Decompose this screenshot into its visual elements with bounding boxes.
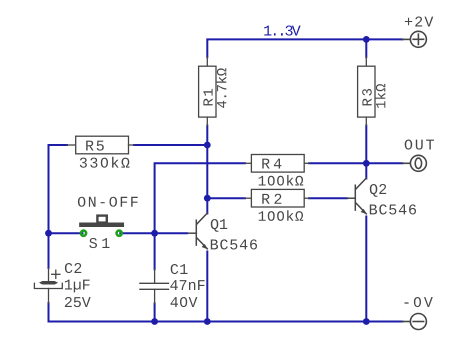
label C2 [65,263,81,273]
transistor Q1 [188,213,207,249]
label R5 [86,141,104,151]
wire R3 top stub [365,39,367,57]
label -0V [405,297,433,307]
wire switch left [49,232,84,234]
label R4 [262,159,281,169]
wire left rail top / R5 left [49,145,68,233]
wire R4 right / OUT line [309,162,403,164]
value 47nF [170,280,204,290]
resistor R1 [199,57,216,125]
transistor Q2 [347,178,366,214]
wire R3 bottom [365,126,367,164]
node label 1..3V [264,26,300,36]
label ON-OFF [78,197,138,207]
value 1µF [65,280,90,293]
resistor R4 [245,155,309,173]
S1 contact left [81,231,86,236]
wire left rail to C2 [48,233,50,268]
resistor R3 [358,57,375,125]
wire switch right to Q1 base [119,232,188,234]
switch S1 button bar [81,222,121,227]
wire C1 top lead [154,233,156,269]
value 40V [171,297,198,307]
label Q2 [370,184,386,197]
terminal OUT [403,155,427,171]
terminal +2V [403,31,427,47]
C2 plus sign [52,270,60,278]
label C1 [171,264,188,274]
value BC546 (Q1) [211,239,257,249]
wire Q2 emitter column [365,217,367,322]
label R2 [262,194,281,204]
value 4.7kΩ [216,68,226,108]
node left rail switch junction [45,230,52,237]
wire Q1 emitter column [206,252,208,322]
node C1 bottom junction [151,318,158,325]
label +2V [405,17,433,27]
wire R2 left [207,197,245,199]
resistor R5 [67,136,134,154]
transistor Q2 emitter arrow [361,209,367,215]
label OUT [405,140,434,150]
label Q1 [211,219,227,232]
value 330kΩ [80,157,130,168]
capacitor C1 [140,269,169,303]
value 100kΩ (R4) [259,175,304,186]
wire C1 bottom [154,303,156,321]
switch S1 actuator notch [97,216,106,223]
transistor Q1 emitter arrow [202,244,208,250]
wire C2 bottom to rail [49,303,403,322]
wire Q2 collector stub [365,163,367,178]
wire R4 left / C1 column top [155,163,245,233]
wire R5 right [134,144,207,146]
terminal -0V [403,314,427,330]
value 100kΩ (R2) [259,210,304,221]
node Q2 emitter bottom junction [363,318,370,325]
node Q1 collector junction [204,195,211,202]
wire R1 bottom to Q1 node [206,126,208,199]
wire Q1 collector stub [206,198,208,213]
node top rail R3 junction [363,36,370,43]
node C1 top junction [151,230,158,237]
node Q1 emitter bottom junction [204,318,211,325]
node OUT junction [363,160,370,167]
resistor R2 [245,189,309,207]
label S1 [89,238,109,248]
capacitor C2 (polarized) [34,268,62,303]
value BC546 (Q2) [370,204,416,214]
wire top rail [207,39,402,57]
value 25V [65,297,91,307]
label R3 [362,89,372,106]
label R1 [203,89,212,106]
S1 contact right [117,231,122,236]
node R5-R1 junction [204,142,211,149]
value 1kΩ [375,84,385,108]
wire R2 right to Q2 base [309,197,347,199]
